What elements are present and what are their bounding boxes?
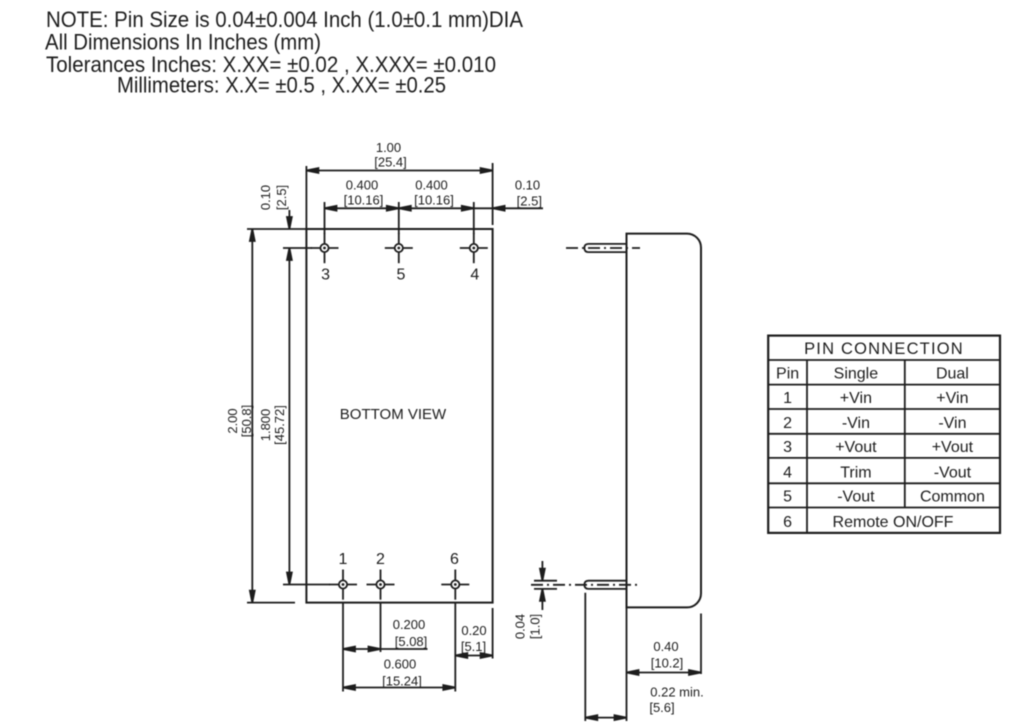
dim 0.400 [10.16] pin5-pin4: [399, 178, 474, 235]
svg-text:Common: Common: [920, 489, 985, 506]
svg-text:4: 4: [783, 464, 792, 481]
dim 2.00 [50.8] overall height (rotated): [225, 229, 295, 603]
svg-text:+Vin: +Vin: [936, 390, 968, 407]
svg-text:[10.16]: [10.16]: [344, 193, 384, 208]
pin 1: [329, 551, 357, 600]
svg-text:[25.4]: [25.4]: [374, 155, 407, 170]
dim 0.22 min [5.6] pin length: [585, 593, 703, 721]
svg-text:All Dimensions In Inches (mm): All Dimensions In Inches (mm): [45, 30, 321, 55]
svg-text:[45.72]: [45.72]: [272, 405, 287, 445]
svg-text:[1.0]: [1.0]: [528, 614, 543, 639]
svg-text:-Vin: -Vin: [842, 415, 870, 432]
svg-text:1.00: 1.00: [376, 140, 401, 155]
svg-text:2: 2: [783, 415, 792, 432]
svg-text:0.600: 0.600: [384, 657, 417, 672]
svg-text:Remote ON/OFF: Remote ON/OFF: [833, 514, 954, 531]
svg-text:[5.1]: [5.1]: [461, 639, 486, 654]
dim 0.10 [2.5] left top (rotated): [247, 185, 306, 229]
svg-text:0.10: 0.10: [515, 178, 540, 193]
svg-text:[2.5]: [2.5]: [274, 185, 289, 210]
svg-text:0.400: 0.400: [346, 178, 379, 193]
svg-text:2.00: 2.00: [225, 408, 240, 433]
svg-text:1.800: 1.800: [258, 409, 273, 442]
dim 0.600 [15.24] pin1-pin6: [343, 657, 455, 690]
svg-text:[2.5]: [2.5]: [517, 194, 542, 209]
svg-text:2: 2: [376, 551, 385, 568]
svg-text:[5.08]: [5.08]: [395, 634, 428, 649]
svg-text:6: 6: [783, 514, 792, 531]
svg-text:PIN CONNECTION: PIN CONNECTION: [804, 340, 964, 358]
svg-text:[5.6]: [5.6]: [649, 700, 674, 715]
pin 5: [385, 233, 413, 284]
side view body: [627, 234, 702, 608]
pin 6: [441, 551, 469, 600]
svg-text:3: 3: [321, 267, 330, 284]
svg-text:Trim: Trim: [840, 464, 871, 481]
svg-text:0.400: 0.400: [415, 178, 448, 193]
svg-text:6: 6: [450, 551, 459, 568]
dim 0.10 [2.5] right edge to pin4: [474, 178, 543, 211]
svg-text:+Vout: +Vout: [932, 439, 974, 456]
dim 0.20 [5.1] pin6 to right edge: [455, 603, 492, 692]
svg-text:Pin: Pin: [776, 366, 799, 383]
dim 0.200 [5.08] pin1-pin2: [343, 603, 428, 692]
dim 1.00 [25.4] overall width: [306, 140, 492, 229]
dim 0.40 [10.2] body depth: [627, 607, 702, 721]
dim 0.400 [10.16] pin3-pin5: [325, 178, 399, 235]
svg-text:0.200: 0.200: [393, 617, 426, 632]
svg-text:+Vout: +Vout: [835, 439, 877, 456]
svg-text:[10.2]: [10.2]: [651, 656, 684, 671]
svg-text:Dual: Dual: [936, 366, 969, 383]
svg-text:[50.8]: [50.8]: [239, 405, 254, 438]
svg-text:0.22 min.: 0.22 min.: [650, 685, 703, 700]
note text block: [45, 7, 523, 97]
pin 4: [460, 233, 488, 284]
svg-text:5: 5: [397, 267, 406, 284]
package body outline (bottom view): [306, 229, 492, 603]
svg-text:5: 5: [783, 489, 792, 506]
pin connection table: [768, 336, 1000, 533]
pin 3: [311, 233, 339, 284]
side view bottom pin: [531, 581, 640, 589]
svg-text:3: 3: [783, 439, 792, 456]
pin 2: [367, 551, 395, 600]
svg-text:+Vin: +Vin: [840, 390, 872, 407]
svg-text:-Vin: -Vin: [938, 415, 966, 432]
svg-text:1: 1: [339, 551, 348, 568]
svg-text:-Vout: -Vout: [934, 464, 972, 481]
svg-text:[10.16]: [10.16]: [414, 193, 454, 208]
svg-text:Millimeters: X.X= ±0.5 , X.XX=: Millimeters: X.X= ±0.5 , X.XX= ±0.25: [117, 72, 446, 97]
svg-text:0.04: 0.04: [513, 614, 528, 639]
svg-text:NOTE: Pin Size is 0.04±0.004 I: NOTE: Pin Size is 0.04±0.004 Inch (1.0±0…: [46, 7, 523, 32]
svg-text:4: 4: [470, 267, 479, 284]
svg-text:Single: Single: [834, 366, 879, 383]
svg-text:0.40: 0.40: [653, 639, 678, 654]
dim 0.04 [1.0] pin thickness (rotated): [513, 561, 558, 639]
svg-text:-Vout: -Vout: [837, 489, 875, 506]
svg-text:0.20: 0.20: [461, 623, 486, 638]
svg-text:1: 1: [783, 390, 792, 407]
dim 1.800 [45.72] pin row spacing (rotated): [258, 248, 330, 585]
svg-text:[15.24]: [15.24]: [382, 674, 422, 689]
side view top pin: [566, 244, 640, 252]
svg-text:0.10: 0.10: [258, 185, 273, 210]
svg-text:BOTTOM VIEW: BOTTOM VIEW: [340, 406, 447, 423]
